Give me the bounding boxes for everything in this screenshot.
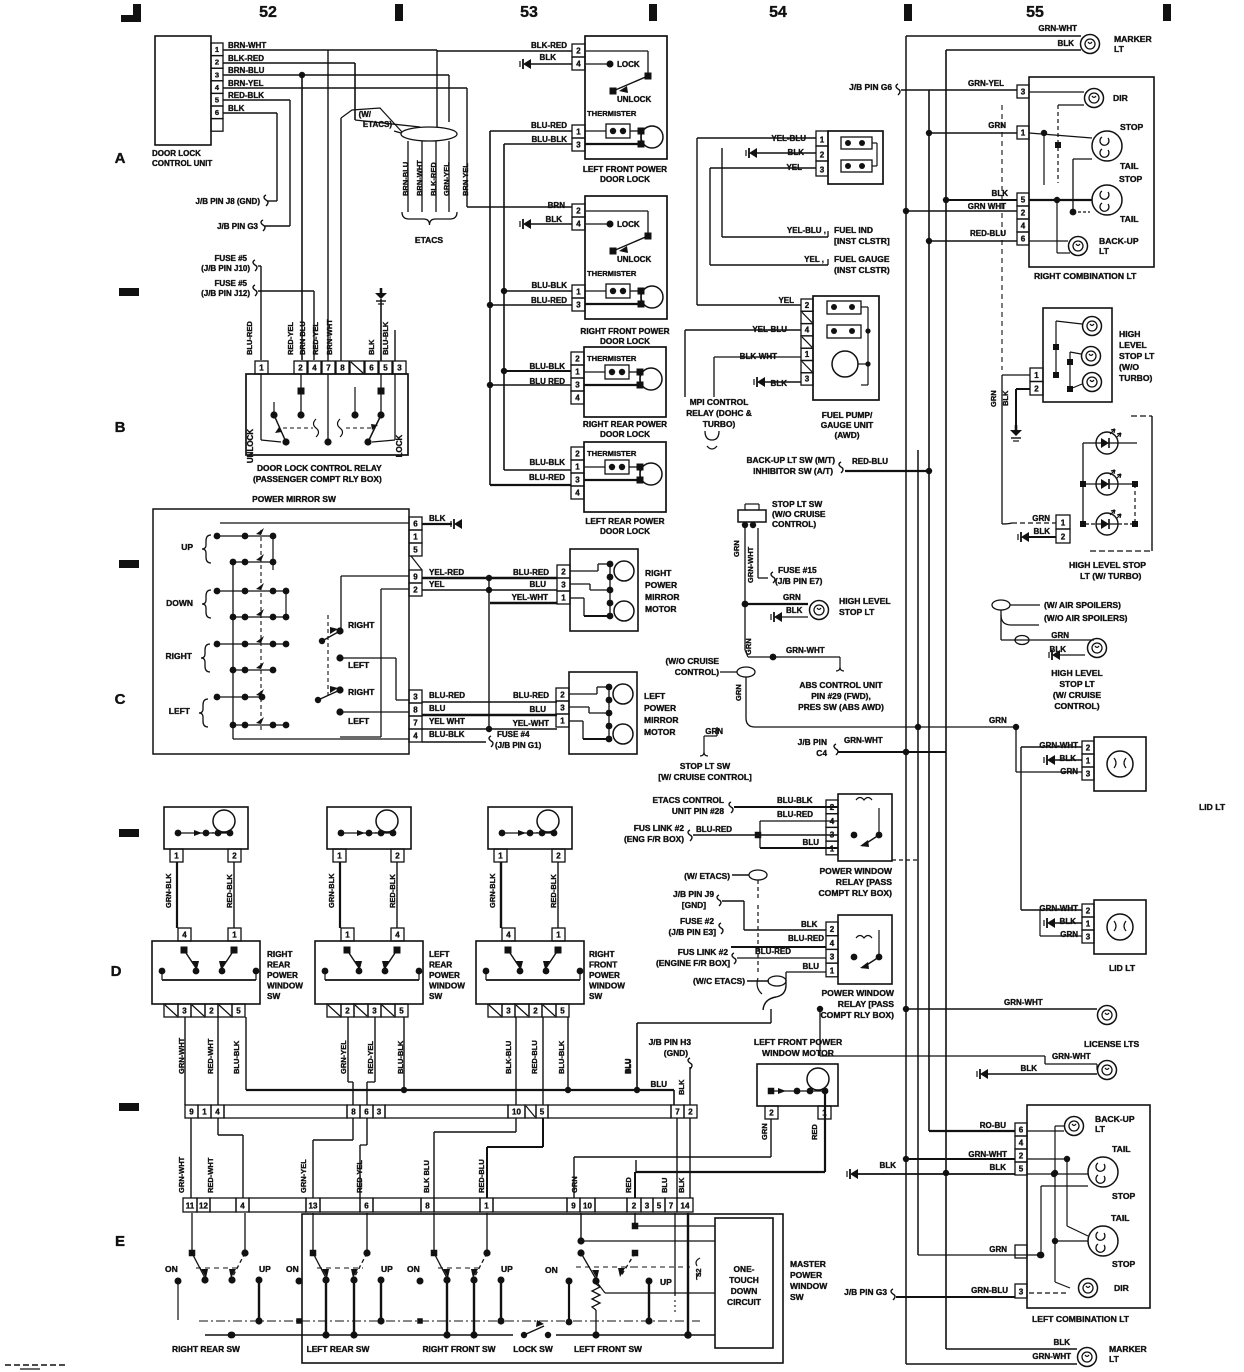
- svg-text:4: 4: [576, 220, 581, 229]
- svg-text:BLU-RED: BLU-RED: [696, 825, 732, 834]
- svg-text:GRN: GRN: [744, 638, 753, 655]
- svg-text:GRN: GRN: [705, 727, 723, 736]
- svg-text:DOOR LOCK: DOOR LOCK: [600, 337, 650, 346]
- svg-text:FUEL GAUGE: FUEL GAUGE: [834, 254, 890, 264]
- svg-text:4: 4: [182, 931, 187, 940]
- svg-text:BLK: BLK: [228, 104, 245, 113]
- svg-text:RIGHT: RIGHT: [589, 950, 614, 959]
- svg-text:POWER MIRROR SW: POWER MIRROR SW: [252, 494, 336, 504]
- svg-text:1: 1: [560, 717, 565, 726]
- svg-text:8: 8: [351, 1108, 356, 1117]
- svg-text:5: 5: [413, 546, 418, 555]
- svg-text:5: 5: [540, 1108, 545, 1117]
- svg-text:BLU-RED: BLU-RED: [777, 810, 813, 819]
- svg-text:DIR: DIR: [1114, 1283, 1130, 1293]
- svg-text:GRN: GRN: [734, 684, 743, 701]
- svg-text:6: 6: [1019, 1126, 1024, 1135]
- svg-text:RED-YEL: RED-YEL: [366, 1041, 375, 1074]
- svg-text:BLK: BLK: [880, 1161, 897, 1170]
- svg-text:3: 3: [645, 1202, 650, 1211]
- svg-text:(W/O CRUISE: (W/O CRUISE: [665, 656, 719, 666]
- svg-text:DOOR LOCK: DOOR LOCK: [600, 175, 650, 184]
- svg-text:LT: LT: [1095, 1124, 1106, 1134]
- svg-text:TAIL: TAIL: [1120, 161, 1138, 171]
- svg-text:RIGHT FRONT SW: RIGHT FRONT SW: [422, 1344, 495, 1354]
- svg-text:BLK: BLK: [786, 606, 803, 615]
- svg-text:STOP LT SW: STOP LT SW: [772, 499, 822, 509]
- svg-text:8: 8: [413, 706, 418, 715]
- svg-text:1: 1: [830, 966, 835, 975]
- svg-text:13: 13: [309, 1202, 318, 1211]
- svg-text:GRN-WHT: GRN-WHT: [746, 546, 755, 583]
- svg-text:ETACS CONTROL: ETACS CONTROL: [653, 795, 725, 805]
- svg-text:LEVEL: LEVEL: [1119, 340, 1147, 350]
- svg-text:GRN-WHT: GRN-WHT: [1052, 1052, 1091, 1061]
- svg-text:[W/ CRUISE CONTROL]: [W/ CRUISE CONTROL]: [658, 772, 752, 782]
- svg-text:1: 1: [498, 852, 503, 861]
- svg-text:FUEL IND: FUEL IND: [834, 225, 873, 235]
- svg-text:4: 4: [805, 325, 810, 334]
- svg-text:GRN-YEL: GRN-YEL: [339, 1040, 348, 1074]
- svg-text:6: 6: [364, 1202, 369, 1211]
- svg-text:YEL-WHT: YEL-WHT: [513, 719, 550, 728]
- svg-text:4: 4: [413, 732, 418, 741]
- svg-text:J/B PIN G3: J/B PIN G3: [844, 1287, 887, 1297]
- svg-text:(W/O CRUISE: (W/O CRUISE: [772, 509, 826, 519]
- svg-text:3: 3: [575, 381, 580, 390]
- svg-text:[INST CLSTR]: [INST CLSTR]: [834, 236, 890, 246]
- svg-text:3: 3: [377, 1108, 382, 1117]
- svg-text:CONTROL UNIT: CONTROL UNIT: [152, 159, 212, 168]
- svg-text:LEFT REAR POWER: LEFT REAR POWER: [585, 517, 664, 526]
- svg-text:A: A: [115, 150, 126, 167]
- svg-text:RED-BLU: RED-BLU: [530, 1040, 539, 1074]
- svg-text:6: 6: [364, 1108, 369, 1117]
- svg-text:FUSE #15: FUSE #15: [778, 565, 817, 575]
- svg-text:FUEL PUMP/: FUEL PUMP/: [822, 410, 873, 420]
- svg-text:MIRROR: MIRROR: [644, 715, 678, 725]
- svg-text:(W/: (W/: [359, 110, 372, 119]
- svg-text:RED-BLU: RED-BLU: [970, 229, 1006, 238]
- svg-text:YEL-RED: YEL-RED: [429, 568, 464, 577]
- svg-text:BLK BLU: BLK BLU: [422, 1160, 431, 1193]
- svg-text:UP: UP: [259, 1264, 271, 1274]
- svg-text:1: 1: [556, 931, 561, 940]
- svg-text:POWER WINDOW: POWER WINDOW: [821, 988, 894, 998]
- svg-text:BRN BLU: BRN BLU: [298, 321, 307, 355]
- svg-text:2: 2: [575, 355, 580, 364]
- svg-text:BLK: BLK: [1060, 917, 1077, 926]
- svg-text:BLU-BLK: BLU-BLK: [531, 135, 567, 144]
- svg-text:BLK: BLK: [677, 1177, 686, 1193]
- svg-text:6: 6: [215, 108, 219, 117]
- svg-text:J/B PIN H3: J/B PIN H3: [649, 1037, 692, 1047]
- svg-text:BLU: BLU: [803, 838, 820, 847]
- svg-text:GRN-WHT: GRN-WHT: [1038, 24, 1077, 33]
- svg-text:2: 2: [805, 301, 810, 310]
- svg-text:BLK: BLK: [1054, 1338, 1071, 1347]
- svg-text:GRN-YEL: GRN-YEL: [442, 162, 451, 196]
- svg-text:2: 2: [1086, 744, 1091, 753]
- svg-text:YEL-WHT: YEL-WHT: [512, 593, 549, 602]
- svg-text:BLU-BLK: BLU-BLK: [529, 362, 565, 371]
- svg-text:3: 3: [830, 953, 835, 962]
- svg-text:RIGHT FRONT POWER: RIGHT FRONT POWER: [580, 327, 669, 336]
- svg-text:MPI CONTROL: MPI CONTROL: [690, 397, 749, 407]
- svg-text:WINDOW: WINDOW: [790, 1281, 828, 1291]
- svg-text:10: 10: [512, 1108, 521, 1117]
- svg-text:WINDOW: WINDOW: [429, 982, 465, 991]
- svg-text:3: 3: [561, 581, 566, 590]
- svg-text:(ENG F/R BOX): (ENG F/R BOX): [624, 834, 684, 844]
- svg-text:LEFT: LEFT: [348, 660, 370, 670]
- svg-text:4: 4: [575, 489, 580, 498]
- svg-text:BLK: BLK: [1058, 39, 1075, 48]
- svg-text:5: 5: [383, 364, 388, 373]
- svg-text:GRN WHT: GRN WHT: [968, 202, 1006, 211]
- svg-text:BLK-RED: BLK-RED: [531, 41, 567, 50]
- svg-text:BRN-BLU: BRN-BLU: [228, 66, 265, 75]
- svg-text:STOP: STOP: [1119, 174, 1143, 184]
- svg-text:4: 4: [576, 60, 581, 69]
- svg-text:RELAY [PASS: RELAY [PASS: [836, 877, 892, 887]
- svg-text:ON: ON: [407, 1264, 420, 1274]
- svg-text:BLU-RED: BLU-RED: [245, 321, 254, 355]
- svg-text:3: 3: [413, 693, 418, 702]
- svg-text:2: 2: [688, 1108, 693, 1117]
- svg-text:CIRCUIT: CIRCUIT: [727, 1297, 762, 1307]
- svg-text:10: 10: [583, 1202, 592, 1211]
- svg-text:3: 3: [1021, 88, 1026, 97]
- svg-text:GRN-YEL: GRN-YEL: [299, 1159, 308, 1193]
- svg-text:BLU: BLU: [530, 580, 547, 589]
- svg-text:THERMISTER: THERMISTER: [587, 449, 637, 458]
- svg-text:(GND): (GND): [664, 1048, 688, 1058]
- svg-text:BLU-BLK: BLU-BLK: [381, 321, 390, 355]
- svg-text:CONTROL): CONTROL): [675, 667, 719, 677]
- svg-text:RED: RED: [624, 1177, 633, 1193]
- svg-text:7: 7: [675, 1108, 680, 1117]
- svg-text:BACK-UP: BACK-UP: [1095, 1114, 1135, 1124]
- svg-text:53: 53: [520, 4, 538, 21]
- svg-text:WINDOW: WINDOW: [589, 982, 625, 991]
- svg-text:11: 11: [186, 1202, 195, 1211]
- svg-text:BLK: BLK: [801, 920, 818, 929]
- svg-text:4: 4: [395, 931, 400, 940]
- svg-text:FUS LINK #2: FUS LINK #2: [678, 947, 729, 957]
- svg-text:BACK-UP: BACK-UP: [1099, 236, 1139, 246]
- svg-text:9: 9: [413, 573, 418, 582]
- svg-text:GRN: GRN: [783, 593, 801, 602]
- svg-text:GRN-WHT: GRN-WHT: [1004, 998, 1043, 1007]
- svg-text:3: 3: [805, 375, 810, 384]
- svg-text:J/B PIN J9: J/B PIN J9: [673, 889, 714, 899]
- svg-text:RED-BLK: RED-BLK: [549, 874, 558, 908]
- svg-text:4: 4: [1021, 222, 1026, 231]
- svg-text:FUS LINK #2: FUS LINK #2: [634, 823, 685, 833]
- svg-text:RIGHT REAR SW: RIGHT REAR SW: [172, 1344, 240, 1354]
- svg-text:RELAY (DOHC &: RELAY (DOHC &: [686, 408, 752, 418]
- svg-text:D: D: [111, 963, 122, 980]
- svg-text:RED-BLU: RED-BLU: [477, 1159, 486, 1193]
- svg-text:GRN-WHT: GRN-WHT: [177, 1156, 186, 1193]
- svg-text:GRN: GRN: [988, 121, 1006, 130]
- svg-text:LT: LT: [1109, 1354, 1120, 1364]
- svg-text:SW: SW: [589, 992, 602, 1001]
- svg-text:3: 3: [506, 1007, 511, 1016]
- svg-text:COMPT RLY BOX): COMPT RLY BOX): [818, 888, 892, 898]
- svg-text:RED-BLU: RED-BLU: [852, 457, 888, 466]
- svg-text:J/B PIN: J/B PIN: [798, 737, 827, 747]
- svg-text:CONTROL): CONTROL): [1054, 701, 1099, 711]
- svg-text:1: 1: [484, 1202, 489, 1211]
- svg-text:1: 1: [561, 594, 566, 603]
- svg-text:COMPT RLY BOX): COMPT RLY BOX): [820, 1010, 894, 1020]
- svg-text:(J/B PIN E7): (J/B PIN E7): [775, 576, 823, 586]
- svg-text:54: 54: [769, 4, 787, 21]
- svg-text:TURBO): TURBO): [703, 419, 736, 429]
- svg-text:POWER: POWER: [589, 971, 620, 980]
- svg-text:GRN-BLK: GRN-BLK: [164, 873, 173, 908]
- svg-text:YEL-BLU ,: YEL-BLU ,: [787, 226, 826, 235]
- svg-text:GRN: GRN: [760, 1123, 769, 1140]
- svg-text:GRN-WHT: GRN-WHT: [1039, 904, 1078, 913]
- svg-text:BLK: BLK: [992, 189, 1009, 198]
- svg-text:2: 2: [820, 151, 825, 160]
- svg-text:BLU-RED: BLU-RED: [529, 473, 565, 482]
- svg-text:2: 2: [209, 1007, 214, 1016]
- svg-text:RIGHT COMBINATION LT: RIGHT COMBINATION LT: [1034, 271, 1137, 281]
- svg-text:POWER: POWER: [645, 580, 677, 590]
- svg-text:LEFT REAR SW: LEFT REAR SW: [307, 1344, 370, 1354]
- svg-text:SW: SW: [429, 992, 442, 1001]
- svg-text:(AWD): (AWD): [834, 430, 859, 440]
- svg-text:2: 2: [576, 207, 581, 216]
- svg-text:FUSE #5: FUSE #5: [215, 279, 248, 288]
- svg-text:REAR: REAR: [267, 961, 290, 970]
- svg-text:LEFT: LEFT: [644, 691, 666, 701]
- svg-text:BLU-RED: BLU-RED: [429, 691, 465, 700]
- svg-text:UNIT PIN #28: UNIT PIN #28: [672, 806, 724, 816]
- svg-text:2: 2: [533, 1007, 538, 1016]
- svg-text:RO-BU: RO-BU: [980, 1121, 1006, 1130]
- svg-text:MARKER: MARKER: [1114, 34, 1153, 44]
- svg-text:1: 1: [259, 364, 264, 373]
- svg-text:(W/O: (W/O: [1119, 362, 1139, 372]
- svg-text:YEL WHT: YEL WHT: [429, 717, 465, 726]
- svg-text:GRN: GRN: [732, 540, 741, 557]
- svg-text:LICENSE LTS: LICENSE LTS: [1084, 1039, 1139, 1049]
- svg-text:BLU-RED: BLU-RED: [531, 121, 567, 130]
- svg-text:BRN-YEL: BRN-YEL: [228, 79, 264, 88]
- svg-text:BLK: BLK: [546, 215, 563, 224]
- svg-text:RED-BLK: RED-BLK: [228, 91, 264, 100]
- svg-text:RIGHT REAR POWER: RIGHT REAR POWER: [583, 420, 667, 429]
- svg-text:2: 2: [561, 568, 566, 577]
- svg-text:1: 1: [1086, 757, 1091, 766]
- svg-text:BLU: BLU: [660, 1178, 669, 1193]
- svg-text:WINDOW: WINDOW: [267, 982, 303, 991]
- svg-text:BRN: BRN: [548, 201, 566, 210]
- svg-text:STOP: STOP: [1112, 1259, 1136, 1269]
- svg-text:GRN-BLU: GRN-BLU: [971, 1286, 1008, 1295]
- svg-text:RED-WHT: RED-WHT: [206, 1038, 215, 1074]
- svg-text:BLK: BLK: [367, 339, 376, 355]
- svg-text:LEFT COMBINATION LT: LEFT COMBINATION LT: [1032, 1314, 1130, 1324]
- svg-text:3: 3: [575, 476, 580, 485]
- svg-text:PRES SW (ABS AWD): PRES SW (ABS AWD): [798, 702, 884, 712]
- svg-text:2: 2: [298, 364, 303, 373]
- svg-text:B: B: [115, 419, 126, 436]
- svg-text:BLK: BLK: [1034, 527, 1051, 536]
- svg-text:(PASSENGER COMPT RLY BOX): (PASSENGER COMPT RLY BOX): [253, 474, 382, 484]
- svg-text:TAIL: TAIL: [1112, 1144, 1130, 1154]
- svg-text:MOTOR: MOTOR: [644, 727, 675, 737]
- svg-text:3: 3: [215, 70, 219, 79]
- svg-text:(W/ AIR SPOILERS): (W/ AIR SPOILERS): [1044, 600, 1121, 610]
- svg-text:2: 2: [1061, 533, 1066, 542]
- svg-text:3: 3: [830, 831, 835, 840]
- svg-text:RED-YEL: RED-YEL: [286, 322, 295, 355]
- svg-text:BLK: BLK: [1021, 1064, 1038, 1073]
- svg-text:GRN-WHT: GRN-WHT: [968, 1150, 1007, 1159]
- svg-text:RED-BLK: RED-BLK: [388, 874, 397, 908]
- svg-text:DIR: DIR: [1113, 93, 1129, 103]
- svg-text:4: 4: [240, 1202, 245, 1211]
- svg-text:12: 12: [199, 1202, 208, 1211]
- svg-text:ONE-: ONE-: [734, 1264, 755, 1274]
- svg-text:4: 4: [830, 939, 835, 948]
- svg-text:GAUGE UNIT: GAUGE UNIT: [821, 420, 874, 430]
- svg-text:DOOR LOCK CONTROL RELAY: DOOR LOCK CONTROL RELAY: [257, 463, 382, 473]
- svg-text:DOOR LOCK: DOOR LOCK: [600, 430, 650, 439]
- svg-text:GRN: GRN: [1060, 930, 1078, 939]
- svg-text:1: 1: [1034, 371, 1039, 380]
- svg-text:PIN #29 (FWD),: PIN #29 (FWD),: [811, 691, 871, 701]
- svg-text:GRN: GRN: [1051, 631, 1069, 640]
- svg-text:HIGH LEVEL STOP: HIGH LEVEL STOP: [1069, 560, 1146, 570]
- svg-text:BLU-BLK: BLU-BLK: [531, 281, 567, 290]
- svg-text:1: 1: [345, 931, 350, 940]
- svg-text:DOOR LOCK: DOOR LOCK: [152, 149, 201, 158]
- svg-text:UNLOCK: UNLOCK: [617, 95, 651, 104]
- svg-text:MASTER: MASTER: [790, 1259, 826, 1269]
- svg-text:INHIBITOR SW (A/T): INHIBITOR SW (A/T): [753, 466, 833, 476]
- svg-text:BLU-BLK: BLU-BLK: [429, 730, 465, 739]
- svg-text:1: 1: [575, 463, 580, 472]
- svg-text:STOP: STOP: [1112, 1191, 1136, 1201]
- svg-text:J/B PIN J8 (GND): J/B PIN J8 (GND): [196, 197, 261, 206]
- svg-text:3: 3: [820, 166, 825, 175]
- svg-text:[GND]: [GND]: [682, 900, 706, 910]
- svg-text:5: 5: [399, 1007, 404, 1016]
- svg-text:THERMISTER: THERMISTER: [587, 109, 637, 118]
- svg-text:1: 1: [830, 844, 835, 853]
- svg-text:UP: UP: [381, 1264, 393, 1274]
- svg-text:2: 2: [232, 852, 237, 861]
- svg-text:1: 1: [576, 288, 581, 297]
- svg-text:TAIL: TAIL: [1111, 1213, 1129, 1223]
- svg-text:GRN-WHT: GRN-WHT: [844, 736, 883, 745]
- svg-text:BLU: BLU: [429, 704, 446, 713]
- svg-text:LOCK: LOCK: [617, 220, 640, 229]
- svg-text:RIGHT: RIGHT: [645, 568, 672, 578]
- svg-text:BLU-RED: BLU-RED: [755, 947, 791, 956]
- svg-text:UP: UP: [181, 542, 193, 552]
- svg-text:MARKER: MARKER: [1109, 1344, 1148, 1354]
- svg-text:3: 3: [1019, 1288, 1024, 1297]
- svg-text:BLU: BLU: [803, 962, 820, 971]
- svg-text:3: 3: [1086, 770, 1091, 779]
- svg-text:LID LT: LID LT: [1109, 963, 1136, 973]
- svg-text:3: 3: [397, 364, 402, 373]
- svg-text:BLK: BLK: [429, 514, 446, 523]
- svg-text:DOOR LOCK: DOOR LOCK: [600, 527, 650, 536]
- svg-text:STOP: STOP: [1120, 122, 1144, 132]
- svg-text:BLK-RED: BLK-RED: [429, 162, 438, 196]
- svg-text:STOP LT: STOP LT: [839, 607, 875, 617]
- svg-text:1: 1: [575, 368, 580, 377]
- svg-text:1: 1: [805, 350, 810, 359]
- svg-text:BLK: BLK: [677, 1079, 686, 1095]
- svg-text:4: 4: [312, 364, 317, 373]
- svg-text:LEFT FRONT POWER: LEFT FRONT POWER: [583, 165, 667, 174]
- svg-text:ON: ON: [286, 1264, 299, 1274]
- svg-text:2: 2: [1019, 1152, 1024, 1161]
- svg-text:FUSE #5: FUSE #5: [215, 254, 248, 263]
- svg-text:1: 1: [1021, 129, 1026, 138]
- svg-text:UP: UP: [660, 1277, 672, 1287]
- svg-text:HIGH LEVEL: HIGH LEVEL: [839, 596, 891, 606]
- svg-text:1: 1: [1086, 920, 1091, 929]
- svg-text:2: 2: [556, 852, 561, 861]
- svg-text:UNLOCK: UNLOCK: [617, 255, 651, 264]
- svg-text:YEL: YEL: [778, 296, 794, 305]
- svg-text:4: 4: [506, 931, 511, 940]
- svg-text:J/B PIN G3: J/B PIN G3: [217, 222, 258, 231]
- svg-text:TOUCH: TOUCH: [729, 1275, 759, 1285]
- svg-text:THERMISTER: THERMISTER: [587, 269, 637, 278]
- svg-text:5: 5: [657, 1202, 662, 1211]
- svg-text:REAR: REAR: [429, 961, 452, 970]
- svg-text:8: 8: [425, 1202, 430, 1211]
- svg-text:POWER WINDOW: POWER WINDOW: [819, 866, 892, 876]
- svg-text:55: 55: [1026, 4, 1044, 21]
- svg-text:5: 5: [1019, 1165, 1024, 1174]
- svg-text:STOP LT: STOP LT: [1059, 679, 1095, 689]
- svg-text:DOWN: DOWN: [166, 598, 193, 608]
- svg-text:BLK-BLU: BLK-BLU: [504, 1041, 513, 1074]
- svg-text:TAIL: TAIL: [1120, 214, 1138, 224]
- svg-text:BRN-WHT: BRN-WHT: [228, 41, 266, 50]
- svg-text:LID LT: LID LT: [1199, 802, 1226, 812]
- svg-text:RED-WHT: RED-WHT: [206, 1157, 215, 1193]
- svg-text:LOCK SW: LOCK SW: [513, 1344, 553, 1354]
- svg-text:POWER: POWER: [267, 971, 298, 980]
- svg-text:THERMISTER: THERMISTER: [587, 354, 637, 363]
- svg-text:STOP LT: STOP LT: [1119, 351, 1155, 361]
- svg-text:RIGHT: RIGHT: [166, 651, 193, 661]
- svg-text:GRN-BLK: GRN-BLK: [488, 873, 497, 908]
- svg-text:POWER: POWER: [429, 971, 460, 980]
- svg-text:GRN: GRN: [989, 390, 998, 407]
- svg-text:8: 8: [340, 364, 345, 373]
- svg-text:(J/B PIN G1): (J/B PIN G1): [495, 741, 542, 750]
- svg-text:7: 7: [326, 364, 331, 373]
- svg-text:GRN-WHT: GRN-WHT: [1032, 1352, 1071, 1361]
- svg-text:3: 3: [576, 141, 581, 150]
- svg-text:C: C: [115, 691, 126, 708]
